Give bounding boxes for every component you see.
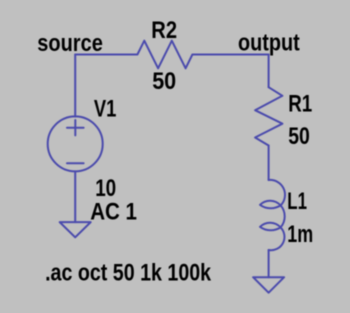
- svg-text:source: source: [37, 30, 103, 57]
- svg-text:AC 1: AC 1: [90, 198, 137, 225]
- svg-text:50: 50: [288, 123, 310, 150]
- svg-text:1m: 1m: [287, 221, 313, 248]
- svg-text:R1: R1: [288, 90, 312, 117]
- svg-text:L1: L1: [287, 188, 307, 215]
- svg-text:V1: V1: [94, 95, 117, 122]
- svg-text:50: 50: [152, 68, 176, 95]
- svg-text:.ac oct 50 1k 100k: .ac oct 50 1k 100k: [45, 260, 212, 287]
- svg-text:R2: R2: [151, 17, 177, 44]
- svg-text:output: output: [238, 29, 300, 56]
